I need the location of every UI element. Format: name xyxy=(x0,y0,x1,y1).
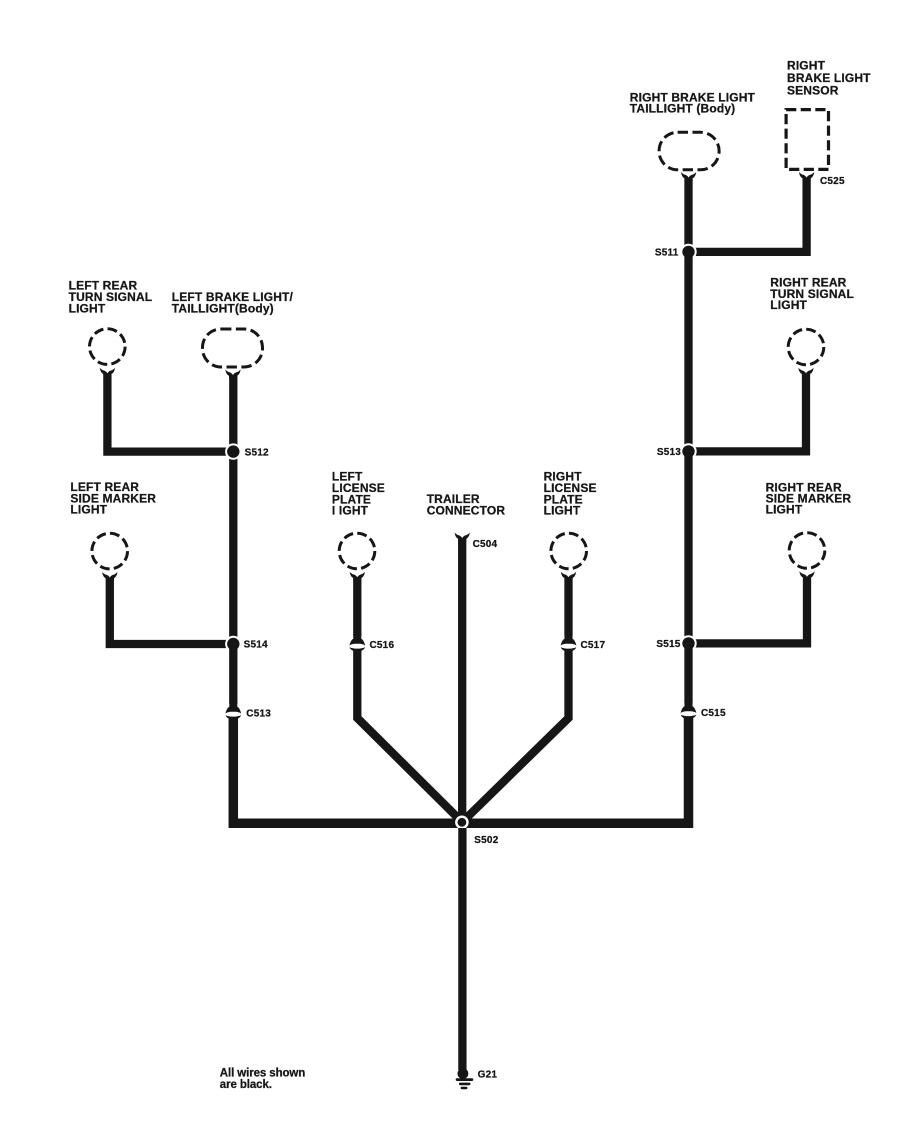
svg-text:TAILLIGHT (Body): TAILLIGHT (Body) xyxy=(630,102,736,116)
lamp: right brake light / taillight (dashed stadium) xyxy=(659,132,719,170)
lamp: left license plate light (dashed circle) xyxy=(339,533,375,569)
wire: left license plate lamp to connector C516 xyxy=(353,577,361,636)
svg-text:are black.: are black. xyxy=(220,1079,272,1091)
svg-text:LIGHT: LIGHT xyxy=(544,504,581,518)
connector C513 (bottom half) xyxy=(226,715,242,719)
wire: connector C515 down and along ground bus to splice S502 xyxy=(462,718,689,824)
label: LEFT REAR TURN SIGNAL LIGHT xyxy=(69,279,153,316)
label: RIGHT BRAKE LIGHT TAILLIGHT (Body) xyxy=(630,90,756,115)
connector flare at right license plate lamp xyxy=(561,572,576,581)
label: TRAILER CONNECTOR xyxy=(427,492,506,517)
label: RIGHT BRAKE LIGHT SENSOR xyxy=(787,58,871,97)
wire: connector C516 down then diagonal to splice S502 xyxy=(357,650,462,822)
splice S514 xyxy=(225,636,241,652)
lamp: right rear turn signal light (dashed circle) xyxy=(788,329,824,365)
wire: splice S502 down to ground G21 xyxy=(458,828,466,1070)
connector C517 (in-line, top half) xyxy=(561,635,577,646)
svg-text:C513: C513 xyxy=(246,708,271,719)
connector flare at left brake light / taillight xyxy=(225,370,240,379)
svg-text:S515: S515 xyxy=(656,639,680,650)
connector C515 (bottom half) xyxy=(681,715,697,719)
connector flare C525 at sensor xyxy=(799,172,814,181)
wire: left rear turn signal lamp to splice S512 xyxy=(107,374,233,452)
connector flare at left rear side marker lamp xyxy=(102,572,117,581)
lamp: left brake light / taillight (dashed stadium) xyxy=(203,329,263,367)
wire: right rear turn signal lamp to splice S513 xyxy=(689,374,807,451)
connector flare at right rear side marker lamp xyxy=(799,571,814,580)
splice S502 (ring node) xyxy=(455,816,469,830)
wire: right license plate lamp to connector C517 xyxy=(564,577,572,636)
svg-text:All wires shown: All wires shown xyxy=(220,1068,305,1080)
svg-text:CONNECTOR: CONNECTOR xyxy=(427,503,506,517)
svg-text:G21: G21 xyxy=(478,1070,498,1081)
note: all wires shown are black xyxy=(220,1068,305,1092)
svg-text:S502: S502 xyxy=(474,835,498,846)
wire: left rear side marker lamp to splice S514 xyxy=(110,578,234,644)
wire: right rear side marker lamp to splice S515 xyxy=(689,577,808,643)
splice S515 xyxy=(680,635,696,651)
wire: connector C513 down and along ground bus to splice S502 xyxy=(233,718,462,823)
svg-text:LIGHT: LIGHT xyxy=(766,503,803,517)
splice S512 xyxy=(225,443,241,459)
svg-text:I IGHT: I IGHT xyxy=(332,504,369,518)
svg-text:C525: C525 xyxy=(820,176,845,187)
svg-text:C504: C504 xyxy=(473,539,498,550)
connector flare at right brake light / taillight xyxy=(681,172,696,181)
ground G21 symbol xyxy=(456,1068,474,1089)
label: LEFT BRAKE LIGHT / TAILLIGHT(Body) xyxy=(172,290,294,315)
svg-text:TAILLIGHT(Body): TAILLIGHT(Body) xyxy=(172,302,274,316)
svg-text:C516: C516 xyxy=(370,640,395,651)
lamp: right rear side marker light (dashed circle) xyxy=(789,533,825,569)
wire: trailer connector C504 down to splice S502 xyxy=(458,538,466,822)
svg-text:C515: C515 xyxy=(701,708,726,719)
splice S511 xyxy=(680,244,696,260)
svg-text:S511: S511 xyxy=(655,248,679,259)
wire: splice S512 down to splice S514 xyxy=(229,452,237,644)
lamp: left rear side marker light (dashed circle) xyxy=(92,533,128,569)
connector flare C504 (trailer connector wire end) xyxy=(455,533,470,542)
connector flare at left license plate lamp xyxy=(350,572,365,581)
svg-text:SENSOR: SENSOR xyxy=(787,83,839,97)
svg-text:LIGHT: LIGHT xyxy=(69,302,106,316)
wire: sensor C525 down and left to splice S511 xyxy=(689,178,807,252)
label: RIGHT REAR TURN SIGNAL LIGHT xyxy=(770,276,854,312)
label: RIGHT REAR SIDE MARKER LIGHT xyxy=(766,481,852,517)
wire: splice S511 down to splice S513 xyxy=(684,252,692,452)
label: LEFT LICENSE PLATE LIGHT xyxy=(332,470,385,518)
connector flare at left rear turn signal lamp xyxy=(100,368,115,377)
wire: splice S513 down to splice S515 xyxy=(684,451,692,643)
wire: splice S515 down to connector C515 xyxy=(684,643,692,703)
wire: splice S514 down to connector C513 xyxy=(229,644,237,704)
svg-text:LIGHT: LIGHT xyxy=(70,503,107,517)
splice S513 xyxy=(680,443,696,459)
right brake light sensor (dashed box) xyxy=(786,110,828,170)
connector flare at right rear turn signal lamp xyxy=(798,368,813,377)
connector C515 (in-line, top half) xyxy=(681,703,697,714)
wire: left brake light to splice S512 xyxy=(229,375,237,452)
connector C513 (in-line, top half) xyxy=(225,703,241,714)
label: LEFT REAR SIDE MARKER LIGHT xyxy=(70,480,156,516)
wire: right brake light to splice S511 xyxy=(684,178,692,252)
svg-text:C517: C517 xyxy=(581,640,606,651)
connector C516 (bottom half) xyxy=(350,647,366,651)
lamp: left rear turn signal light (dashed circle) xyxy=(90,329,126,365)
wire: connector C517 down then diagonal to splice S502 xyxy=(463,650,569,822)
label: RIGHT LICENSE PLATE LIGHT xyxy=(544,470,597,518)
svg-text:LIGHT: LIGHT xyxy=(770,298,807,312)
svg-text:S512: S512 xyxy=(245,447,269,458)
svg-text:S514: S514 xyxy=(244,640,268,651)
lamp: right license plate light (dashed circle) xyxy=(551,533,587,569)
connector C517 (bottom half) xyxy=(561,647,577,651)
svg-text:S513: S513 xyxy=(657,447,681,458)
connector C516 (in-line, top half) xyxy=(349,635,365,646)
